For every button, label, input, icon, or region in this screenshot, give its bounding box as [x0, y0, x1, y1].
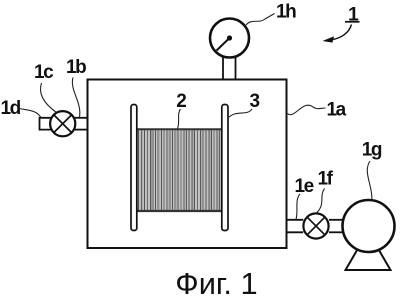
gauge center dot — [227, 35, 232, 40]
svg-text:1f: 1f — [318, 169, 334, 190]
gauge stem — [222, 56, 224, 79]
svg-text:1a: 1a — [327, 100, 347, 121]
leader line 1e — [296, 194, 300, 219]
left stub pipe 1d — [40, 118, 52, 130]
svg-text:1c: 1c — [34, 62, 54, 83]
svg-text:1b: 1b — [66, 57, 86, 78]
spool right flange 3 — [222, 105, 228, 231]
leader line 1f — [317, 189, 325, 213]
arrow for 1 — [331, 25, 352, 40]
svg-text:3: 3 — [250, 91, 261, 112]
spool left flange — [131, 105, 137, 231]
pump stand — [346, 249, 391, 271]
svg-text:1d: 1d — [1, 98, 21, 119]
leader line 1d — [20, 109, 41, 118]
svg-text:1: 1 — [348, 4, 359, 26]
vessel box 1a — [88, 80, 287, 249]
svg-text:1e: 1e — [295, 176, 314, 197]
pressure gauge 1h — [210, 19, 249, 58]
svg-text:Фиг. 1: Фиг. 1 — [175, 266, 257, 300]
leader line 1c — [40, 83, 56, 113]
spool body 2 (coil) — [137, 129, 222, 212]
gauge needle — [217, 38, 230, 51]
leader line 1a — [288, 105, 326, 115]
svg-text:1h: 1h — [276, 2, 296, 23]
valve 1f — [303, 213, 328, 238]
wire pipe valve to box — [75, 117, 88, 119]
pump 1g — [343, 200, 395, 252]
right pipe box to valve — [287, 219, 304, 221]
underline of 1 — [345, 21, 360, 23]
leader line 1g — [367, 161, 372, 200]
leader line 2 — [177, 109, 180, 129]
leader line 3 — [229, 109, 252, 117]
svg-text:2: 2 — [176, 91, 187, 112]
pipe valve to pump — [329, 219, 344, 221]
svg-text:1g: 1g — [362, 140, 382, 161]
leader line 1h — [246, 14, 275, 26]
valve 1c — [50, 111, 75, 136]
leader line 1b — [72, 78, 79, 118]
